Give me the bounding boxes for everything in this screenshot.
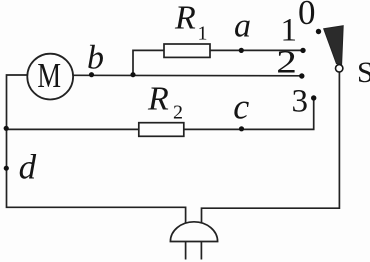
svg-text:b: b — [87, 40, 104, 77]
svg-text:d: d — [19, 148, 37, 187]
svg-text:1: 1 — [281, 12, 298, 48]
svg-text:a: a — [234, 8, 251, 45]
svg-text:0: 0 — [298, 0, 316, 32]
svg-text:c: c — [233, 86, 249, 126]
svg-text:R: R — [174, 0, 196, 36]
svg-text:R: R — [147, 80, 169, 117]
svg-text:S: S — [357, 56, 370, 89]
svg-text:M: M — [37, 55, 61, 94]
svg-text:3: 3 — [292, 84, 309, 120]
svg-text:2: 2 — [276, 44, 297, 80]
svg-text:1: 1 — [198, 23, 208, 45]
svg-text:2: 2 — [173, 102, 183, 124]
